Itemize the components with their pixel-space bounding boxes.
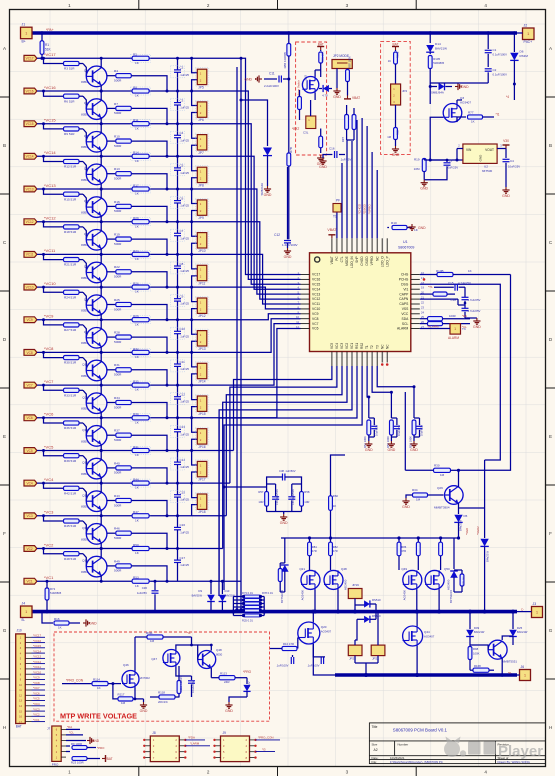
svg-text:Q6: Q6 [84, 232, 88, 236]
svg-text:VIN: VIN [466, 148, 472, 152]
svg-text:*P-: *P- [508, 671, 512, 675]
svg-text:3: 3 [346, 3, 349, 8]
wire base branch VC10 [42, 286, 45, 289]
svg-text:100R: 100R [449, 314, 456, 318]
diode D9 BAV21W [210, 581, 212, 594]
capacitor C9 .1uF [176, 286, 179, 289]
jumper JP8 [190, 155, 193, 158]
svg-text:GND: GND [461, 85, 469, 89]
transistor Q46 2N7002 [122, 671, 139, 688]
wire net VC13 [37, 188, 151, 190]
resistor R10B 1K on CHG [437, 272, 453, 276]
resistor R48 51R [64, 552, 80, 556]
svg-text:R30 51R: R30 51R [64, 361, 77, 365]
svg-text:BAV21W: BAV21W [435, 47, 447, 51]
svg-text:C9: C9 [180, 295, 184, 299]
svg-text:VC17: VC17 [26, 57, 34, 61]
svg-text:Q4: Q4 [84, 167, 88, 171]
svg-text:51R0805: 51R0805 [433, 61, 444, 65]
resistor R168 1M [473, 668, 489, 672]
svg-text:8050: 8050 [81, 472, 88, 476]
U1 top pin VPRO [371, 238, 373, 253]
svg-text:BAT: BAT [16, 725, 22, 729]
svg-text:Size: Size [372, 742, 378, 746]
ground C16 [323, 155, 327, 159]
svg-text:R27 51R: R27 51R [64, 328, 77, 332]
svg-text:R43: R43 [114, 494, 120, 498]
svg-text:R60: R60 [333, 494, 339, 498]
svg-text:P4C+: P4C+ [524, 40, 533, 44]
svg-text:1M: 1M [416, 498, 421, 502]
svg-text:500R: 500R [114, 536, 122, 540]
svg-text:VBAT: VBAT [330, 256, 334, 264]
svg-text:8050: 8050 [81, 80, 88, 84]
svg-text:Q26: Q26 [437, 486, 443, 490]
svg-text:10uF/25V: 10uF/25V [375, 424, 379, 436]
watermark cat logo [444, 737, 466, 758]
port VC7 [24, 382, 37, 388]
svg-text:R9 51R: R9 51R [64, 132, 75, 136]
mask boxes [131, 381, 209, 413]
svg-text:R81 10K: R81 10K [320, 51, 324, 62]
svg-text:GND: GND [280, 521, 288, 525]
wire thermistor bottom rail [267, 511, 302, 513]
svg-text:Q43: Q43 [304, 75, 308, 81]
wire base branch VC11 [42, 253, 45, 256]
mask boxes [131, 87, 209, 119]
wire net VC3 [37, 515, 151, 517]
resistor R70 1M right [460, 574, 464, 586]
svg-text:A2: A2 [374, 748, 378, 752]
svg-text:F: F [549, 531, 552, 536]
power V30 output [505, 145, 507, 149]
resistor R12 51R [64, 159, 80, 163]
resistor R17 1K series VC13 [132, 187, 149, 191]
svg-text:R114: R114 [93, 678, 100, 682]
power VBAT J7 [102, 755, 106, 762]
U1 right pin VSS [411, 308, 420, 310]
jumper JP19 [348, 589, 362, 599]
svg-text:C6: C6 [180, 196, 184, 200]
svg-text:Q3: Q3 [84, 134, 88, 138]
svg-text:1: 1 [68, 770, 71, 775]
wire net VC7 [37, 384, 151, 386]
svg-text:*PRO_CON: *PRO_CON [258, 736, 273, 740]
svg-text:Q21: Q21 [299, 567, 305, 571]
wire base branch VC16 [42, 90, 45, 93]
wire T3 net to RC filter [377, 366, 414, 387]
transistor Q44 AO3407 [403, 626, 423, 646]
svg-text:*PRO: *PRO [243, 670, 252, 674]
wire collector Q4 [100, 156, 102, 166]
U1 right pin CAPN [411, 298, 420, 300]
svg-text:2.2uF/100V: 2.2uF/100V [264, 84, 279, 88]
U1 bottom pin T3 [376, 352, 378, 367]
power VBAT JP2 [344, 95, 351, 99]
svg-text:C15: C15 [448, 281, 454, 285]
svg-text:VC8: VC8 [312, 317, 319, 321]
wire collector Q6 [100, 222, 102, 232]
svg-text:R58: R58 [304, 490, 310, 494]
resistor R81 10K [320, 50, 322, 51]
wire Q26 emitter [458, 503, 460, 514]
port VC17 [24, 55, 37, 61]
wire net VC14 [37, 155, 151, 157]
svg-text:*PRO_CON: *PRO_CON [66, 679, 84, 683]
transistor Q3 8050 [86, 132, 107, 153]
mask boxes [131, 218, 209, 250]
svg-text:VPRO: VPRO [370, 256, 374, 266]
svg-text:20K/1%: 20K/1% [158, 700, 168, 704]
svg-text:Q1: Q1 [84, 69, 88, 73]
svg-text:R88: R88 [395, 130, 399, 135]
jumper JP12 [190, 286, 193, 289]
wire net VC9 [37, 319, 151, 321]
jumper JP11 [190, 253, 193, 256]
svg-text:D09: D09 [474, 626, 480, 630]
svg-text:.1uF/100V: .1uF/100V [276, 664, 289, 668]
svg-text:Drawn By: WANG SONG: Drawn By: WANG SONG [498, 760, 531, 764]
svg-text:VC11: VC11 [312, 302, 320, 306]
svg-text:JP11: JP11 [198, 282, 205, 286]
resistor R21 51R [64, 258, 80, 262]
capacitor C35 0.1uF/100V [320, 657, 322, 664]
capacitor C28 10uF/25V [414, 417, 420, 419]
svg-text:S8067009 PCM Board V0.1: S8067009 PCM Board V0.1 [393, 728, 448, 733]
wire VC4 to U1 bottom pin [151, 482, 230, 484]
capacitor C16 .1uF [176, 514, 179, 517]
transistor Q51 MMBT5551 [488, 640, 507, 659]
resistor R13 500R [107, 173, 116, 175]
jumper JP18 [190, 482, 193, 485]
resistor R34 500R [107, 402, 116, 404]
svg-text:Q47: Q47 [151, 657, 157, 661]
svg-text:PRO: PRO [52, 763, 59, 767]
transistor Q2 8050 [86, 99, 107, 120]
svg-text:*I1: *I1 [496, 113, 500, 117]
svg-text:Q12: Q12 [82, 428, 88, 432]
transistor Q43 AO3400A [302, 77, 318, 93]
svg-text:R28: R28 [114, 331, 120, 335]
port VC2 [24, 546, 37, 552]
mask boxes [131, 447, 209, 479]
wire VC2 to U1 bottom pin [151, 548, 223, 550]
wire emitter Q11 [100, 412, 102, 418]
wire emitter Q3 [100, 150, 102, 156]
mask boxes [131, 120, 209, 152]
wire emitter Q1 [100, 85, 102, 91]
port VC15 [24, 121, 37, 127]
svg-text:GND: GND [392, 153, 400, 157]
wire base branch VC2 [42, 547, 45, 550]
svg-text:GND: GND [402, 505, 410, 509]
svg-text:R10: R10 [114, 135, 120, 139]
wire collector Q14 [100, 483, 102, 493]
dashed group MTP WRITE VOLTAGE [54, 632, 270, 721]
svg-text:500R: 500R [114, 144, 122, 148]
resistor R115 4.3K/1% [177, 681, 181, 694]
svg-text:R102: R102 [395, 51, 399, 58]
svg-text:R9 100R: R9 100R [71, 742, 82, 746]
svg-text:1M: 1M [150, 639, 155, 643]
svg-text:MMBT5551: MMBT5551 [502, 660, 517, 664]
svg-text:R31: R31 [114, 363, 120, 367]
svg-text:*T1: *T1 [428, 285, 433, 289]
port VC16 [24, 88, 37, 94]
svg-text:R16: R16 [54, 617, 60, 621]
U1 top pin LDO_O [381, 238, 383, 253]
resistor R114 1K [62, 683, 92, 685]
svg-text:VC9: VC9 [312, 312, 319, 316]
svg-text:VCC: VCC [401, 312, 409, 316]
wire emitter Q6 [100, 248, 102, 254]
svg-text:8050: 8050 [81, 374, 88, 378]
wire emitter Q13 [100, 477, 102, 483]
wire emitter Q15 [100, 543, 102, 549]
svg-text:1: 1 [527, 32, 529, 36]
ground RC filter 1 [368, 441, 370, 444]
transistor Q16 8050 [86, 556, 107, 577]
sense resistor stack R73 R75 R78 R25 0.01 [231, 610, 235, 614]
svg-text:SDA: SDA [402, 317, 410, 321]
svg-text:MODE: MODE [345, 256, 349, 266]
wire collector resistor to lower net [131, 533, 167, 548]
U1 right pin ALARM [411, 328, 420, 330]
jumper JP22 [371, 645, 385, 656]
svg-text:VC13: VC13 [312, 292, 320, 296]
wire D6 down [513, 83, 516, 86]
svg-text:AO3400: AO3400 [403, 590, 407, 601]
resistor R20 1K series VC12 [132, 220, 149, 224]
svg-text:47R: 47R [312, 549, 317, 553]
svg-text:R49: R49 [114, 559, 120, 563]
svg-text:C17: C17 [180, 556, 186, 560]
svg-text:2: 2 [207, 3, 210, 8]
capacitor C10 .1uF [176, 318, 179, 321]
wire base branch VC15 [42, 122, 45, 125]
svg-text:BAV21W: BAV21W [474, 630, 485, 634]
svg-text:R86: R86 [401, 545, 406, 549]
svg-text:S8067009: S8067009 [398, 246, 414, 250]
port ALARM T3 [450, 324, 461, 335]
mask boxes [131, 414, 209, 446]
resistor R7B 1K0805 [287, 153, 291, 166]
capacitor C39 .1uF/50V [275, 484, 277, 496]
svg-text:Q49: Q49 [401, 567, 407, 571]
transistor Q13 8050 [86, 458, 107, 479]
svg-text:*I1: *I1 [187, 631, 191, 635]
resistor R9C CAPP [433, 292, 447, 296]
wire gate drive vertical [331, 455, 346, 541]
wire VC17 to U1 pin 1 [151, 58, 301, 274]
svg-text:*4: *4 [506, 95, 509, 99]
wire Q46 drain up [134, 637, 136, 671]
resistor R47 1K series VC3 [132, 514, 149, 518]
svg-text:R118: R118 [158, 691, 165, 695]
ground R10 [407, 227, 412, 229]
svg-text:4.7uF/25V: 4.7uF/25V [468, 298, 481, 302]
svg-text:Q10: Q10 [82, 363, 88, 367]
resistor R98 100K [468, 647, 472, 660]
watermark text [468, 742, 543, 761]
svg-text:R111: R111 [146, 631, 153, 635]
svg-text:E: E [3, 434, 6, 439]
wire net VC12 [37, 221, 151, 223]
svg-text:R39 51R: R39 51R [64, 459, 77, 463]
svg-text:G: G [3, 628, 7, 633]
svg-text:10R: 10R [258, 500, 263, 504]
svg-text:PC: PC [335, 256, 339, 261]
svg-text:R1: R1 [45, 43, 49, 47]
diode D15 SMBJ64A [429, 85, 432, 88]
svg-text:CTL: CTL [340, 256, 344, 262]
svg-text:1K: 1K [58, 626, 62, 630]
U1 top pin SHP [356, 238, 358, 253]
svg-text:R38: R38 [133, 412, 139, 416]
wire base branch VC13 [42, 188, 45, 191]
wire J2 to bus [513, 31, 517, 35]
resistor R30 1M [434, 468, 451, 472]
port VC5 [24, 448, 37, 454]
capacitor C38 top [282, 474, 284, 481]
svg-text:1: 1 [454, 327, 456, 331]
svg-text:R25 0.01: R25 0.01 [242, 619, 253, 623]
svg-text:VC13: VC13 [26, 187, 34, 191]
U1 left pin 9 VC9 [301, 313, 310, 315]
resistor R57 10R [265, 492, 269, 507]
transistor Q15 8050 [86, 524, 107, 545]
resistor R111 1M [147, 635, 163, 639]
jumper JP16 [190, 416, 193, 419]
resistor R19 500R [107, 238, 116, 240]
capacitor C27 10uF/25V [391, 417, 397, 419]
jumper JP13 [190, 318, 193, 321]
jumper JP5 [190, 57, 193, 60]
capacitor C13 .1uF [176, 416, 179, 419]
svg-text:MMBT3904: MMBT3904 [434, 506, 450, 510]
jumper JP23 [348, 645, 362, 656]
resistor R6 51R [64, 94, 80, 98]
connector J8 DIP [150, 736, 179, 762]
U1 right pin PCHG [411, 278, 420, 280]
resistor R34 1M [413, 493, 428, 497]
wire base branch VC17 [42, 57, 45, 60]
svg-text:RS3M: RS3M [520, 54, 529, 58]
svg-text:R17: R17 [133, 183, 139, 187]
jumper JP2 MODE [332, 60, 352, 69]
connector J10 17-pin [16, 634, 26, 724]
svg-text:*SGD2: *SGD2 [476, 526, 480, 535]
svg-text:JP15: JP15 [198, 412, 205, 416]
wire collector Q8 [100, 287, 102, 297]
port VC14 [24, 153, 37, 159]
svg-text:500R: 500R [114, 209, 122, 213]
wire regulator vin from caps [424, 159, 430, 161]
wire base branch VC8 [42, 351, 45, 354]
transistor Q10 8050 [86, 360, 107, 381]
svg-text:*FDA: *FDA [188, 736, 195, 740]
wire RS1 to sense resistors [219, 366, 357, 596]
U1 bottom pin VC5 [331, 352, 333, 367]
wire VC5 to U1 bottom pin [151, 450, 234, 452]
wire emitter Q12 [100, 445, 102, 451]
svg-text:D9: D9 [198, 589, 202, 593]
port VC12 [24, 219, 37, 225]
svg-text:R168: R168 [474, 664, 481, 668]
svg-text:.1uF/25: .1uF/25 [180, 563, 190, 567]
diode D10 BAV21W [219, 580, 241, 582]
wire collector Q16 [100, 549, 102, 559]
connector J9 DIP [221, 736, 250, 762]
svg-text:1K: 1K [333, 504, 337, 508]
svg-text:D14: D14 [435, 42, 441, 46]
resistor R82b 47R right [440, 538, 442, 542]
svg-text:8050: 8050 [81, 178, 88, 182]
wire collector resistor to lower net [131, 403, 167, 418]
resistor R45 51R [64, 519, 80, 523]
diode D09 BAV21W [469, 612, 471, 629]
wire base branch VC14 [42, 155, 45, 158]
svg-text:J7: J7 [47, 727, 51, 731]
connector J2 [523, 28, 535, 40]
wire R9T R9B join [347, 139, 354, 141]
svg-text:VC3: VC3 [26, 514, 32, 518]
capacitor C1 0.1uF/100V [486, 31, 490, 35]
ground R19 C9 [423, 180, 425, 183]
resistor R16 1K [42, 612, 53, 623]
U1 bottom pin RS2 [361, 352, 363, 367]
svg-text:R78 0.01: R78 0.01 [262, 591, 273, 595]
wire RS2 to sense resistors [224, 366, 362, 590]
resistor R11A 100R SDA [428, 317, 443, 321]
svg-text:BAV21W: BAV21W [459, 520, 463, 531]
svg-text:SHP: SHP [355, 256, 359, 263]
svg-text:C12: C12 [274, 233, 280, 237]
svg-text:VC5: VC5 [26, 449, 32, 453]
svg-text:C9: C9 [449, 159, 453, 163]
svg-text:8050: 8050 [81, 145, 88, 149]
svg-text:MTP WRITE VOLTAGE: MTP WRITE VOLTAGE [60, 712, 137, 721]
svg-text:D6: D6 [520, 50, 524, 54]
jumper JP7 [190, 122, 193, 125]
capacitor C2 .1uF [176, 57, 179, 60]
wire emitter Q2 [100, 118, 102, 124]
resistor R8M 1M [298, 97, 302, 110]
wire balancer sense vertical 1 [236, 67, 238, 610]
svg-text:B-: B- [22, 618, 25, 622]
svg-text:VC10: VC10 [312, 307, 320, 311]
wire VC14 to U1 pin 4 [151, 156, 301, 289]
U1 right pin CHG [411, 274, 420, 276]
wire net VC11 [37, 253, 151, 255]
wire emitter Q14 [100, 510, 102, 516]
svg-text:PCHG: PCHG [399, 278, 409, 282]
capacitor C9 10uF/25V [446, 159, 449, 162]
svg-text:Q7: Q7 [84, 265, 88, 269]
svg-text:51R/0805: 51R/0805 [50, 591, 62, 595]
svg-text:R32: R32 [133, 347, 139, 351]
port VC9 [24, 317, 37, 323]
wire VC15 to U1 pin 3 [151, 124, 301, 285]
wire VC3 to U1 bottom pin [151, 515, 227, 517]
no-ERC marker PCHG [423, 278, 426, 281]
svg-text:R113: R113 [220, 672, 227, 676]
svg-text:4.7V: 4.7V [322, 94, 328, 98]
svg-text:BAV21W: BAV21W [517, 630, 528, 634]
svg-text:R97 100K: R97 100K [347, 56, 351, 68]
wire VC9 to U1 pin 9 [151, 314, 301, 320]
svg-text:R25: R25 [114, 298, 120, 302]
